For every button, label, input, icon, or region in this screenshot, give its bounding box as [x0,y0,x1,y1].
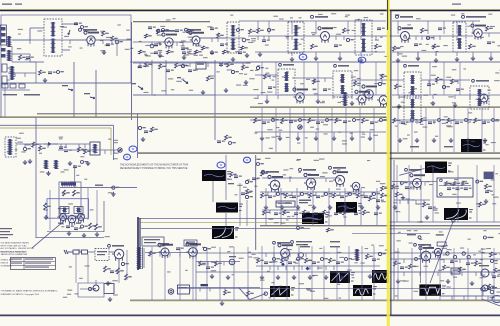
audio amp V18 [161,248,169,256]
labels afc extra [435,212,439,213]
mixer plate cap [210,27,214,29]
left edge verticals [0,83,2,118]
notes table [10,258,55,270]
ps lower [93,285,99,291]
blue mark video [243,157,250,163]
labels vert [348,274,351,275]
hv nodes [446,252,449,255]
v17 label [112,245,124,247]
ground T3 [291,57,293,59]
node mixer in [115,40,119,44]
antenna lower strip [2,64,7,72]
rail y229 [352,233,430,235]
ground after T2 [246,53,248,55]
ground V4 [315,56,317,58]
hv right column [490,252,493,257]
audio box labels [142,237,164,246]
3rd if transformer T5 [453,22,466,52]
tube V15b [352,182,360,190]
damper V24 [481,269,489,277]
takeoff wire 1 [73,62,75,118]
wire afc run [392,181,437,183]
ground T5 [456,57,458,59]
osc cap C8 [175,29,179,31]
audio parts2 [199,261,202,266]
scope photo E [212,226,234,239]
scope photo B [425,162,447,174]
afc label [409,169,421,171]
sync bottom labels [296,241,312,242]
labels video row [276,136,280,137]
node osc [150,44,154,48]
labels top band [248,42,253,43]
if takeoff coil T2 [227,22,239,53]
cap C17 [438,27,442,29]
3rd if transformer T6 [278,69,295,95]
afc right cluster [484,172,494,180]
sound coil box [90,142,100,155]
sound cluster [23,147,26,150]
mixer tube V3 [192,36,200,44]
mixer cathode parts [181,47,185,49]
wire sound run [16,143,90,145]
noise tube V15 [335,175,344,184]
svg-text:RESISTANCE READINGS: RESISTANCE READINGS [1,250,28,253]
V7 parts [313,79,316,84]
afc left parts [392,184,395,189]
rail y158 [388,157,500,159]
sync parts row [261,193,264,198]
takeoff wire 2 [95,70,97,118]
ground R11 [339,56,341,58]
sound diode [48,142,52,146]
rail y225 [260,224,500,226]
audio v-wire to photo I [239,288,250,300]
mid cd verticals [225,155,227,200]
rect box lv [95,249,109,261]
cluster e2 [219,63,223,65]
cluster c2 [175,63,178,68]
top border rule [0,9,500,11]
balun terminals [1,48,6,52]
res sound2 [39,146,42,151]
V5 cathode res [393,46,396,51]
quad coil pair [45,160,48,169]
svg-text:VOLTAGE READINGS TAKEN: VOLTAGE READINGS TAKEN [1,242,30,245]
node T4 [346,38,349,41]
wire run row2 right [250,94,386,96]
rf transformer T1 [44,19,62,56]
vert labels mid [300,246,310,247]
antenna terminal board [1,27,6,31]
labels vert extra [310,291,315,292]
scope photo A [461,139,482,152]
rail row2 top [250,61,386,63]
video amp V10 [480,94,488,102]
width box [451,268,460,274]
horiz parts [394,261,397,266]
focus coil bar [201,284,209,286]
phase diag line [32,221,64,248]
res after T2 [249,29,252,34]
vertical x420b [420,246,422,283]
V4 cathode res [311,44,314,49]
labels ps [106,283,111,284]
svg-text:RECEIVER MADE IT POSSIBLE TO B: RECEIVER MADE IT POSSIBLE TO BRING YOU T… [120,167,188,170]
4th if amp V8 [365,90,374,99]
rf amp tube V1 4BZ7 [87,36,95,44]
horiz label22 [418,244,431,246]
agc wire verticals [151,60,153,95]
scope photo I [270,286,290,297]
V4 plate cap [334,44,338,46]
agc keying box [276,201,295,207]
res R15 [433,44,436,49]
agc tube V14 [306,178,316,188]
res sound3 [78,147,81,152]
disc blue box [47,199,89,219]
vert parts row [257,258,260,263]
ps verticals [75,254,77,283]
2nd if amp V5 6CB6 [401,32,410,41]
fine tuning cap [148,26,152,28]
cluster near c [230,172,233,177]
labels phase det [105,236,110,237]
sync row verticals [265,188,267,225]
scope photo H [444,208,468,220]
3rd if amp V7 [296,93,305,102]
2nd if label [400,16,413,18]
wire c to d [212,181,214,202]
sound disc coil [9,139,12,155]
vert osc V21 [281,249,290,258]
bypass cap C4 [106,43,110,45]
hv diag [482,299,500,306]
mixer area parts [145,34,148,38]
labels mid cd [228,179,232,180]
labels top band extra [230,15,233,16]
video amp tube V11 [358,95,366,103]
afc mid cluster [423,202,426,207]
sync label13 [266,171,279,173]
V9 parts [395,84,398,89]
cathode resistor R4 [111,36,114,41]
bottom rail y300 [130,299,500,301]
wire run row2 left [133,62,250,64]
brightness labels [410,146,419,147]
vert small node [299,253,304,258]
phase det box [59,182,81,216]
rail y153 [137,153,500,155]
audio verticals [151,247,153,300]
osc tube V2 6AF4 [165,38,173,46]
rail y117 [0,117,386,119]
speaker [168,289,173,294]
cluster before 1st if [257,28,260,33]
4th if transformer T7 [333,71,352,97]
wire vert run [258,252,330,254]
svg-text:©HOWARD W. SAMS GRAPHIC SERVIC: ©HOWARD W. SAMS GRAPHIC SERVICES SCHEMAT… [1,290,58,293]
label T7 [338,65,349,67]
ground e2 [225,88,227,90]
mixer res [217,33,220,38]
audio labels [158,243,169,245]
ground osc [159,53,161,55]
vertical x36 [35,118,37,239]
labels video bottom [297,159,301,160]
phase dashed border [103,201,105,232]
wire T1 feed [30,27,44,29]
hv circle2 [482,285,488,291]
sound box top [0,124,114,126]
rf amp plate wire [70,39,87,41]
top band bottom parts [139,50,142,54]
1st if label [315,16,328,18]
wire stubs top band [255,51,385,53]
b+ vertical [74,165,76,188]
audio out V19 [189,248,198,257]
wire run osc row [133,41,192,43]
ground T4 [360,58,362,60]
vert label21 [277,242,290,244]
labels row2 right [300,83,304,84]
cluster a2 [138,65,142,67]
vert parts2 [366,254,369,259]
ground R15 [435,58,437,60]
labels bottom afc [407,230,411,231]
scope photo F [336,202,357,213]
antenna coil L1 [8,36,11,47]
yellow fold line [387,0,390,326]
blue mark if1 [299,54,307,60]
scope photo C [202,170,226,181]
tuner interior wires [11,46,13,62]
ps parts [104,266,107,272]
svg-text:SYMBOL KEY: SYMBOL KEY [1,260,14,262]
phase det wire 250v [60,187,113,189]
tuner enclosure [1,15,131,83]
fold shadow line [390,10,392,315]
sync tube V13 [270,180,280,190]
agc label14 [303,169,316,171]
blue mark if2 [358,57,366,63]
res R14 [421,28,424,33]
video out transformer T9 [470,86,489,109]
V8 parts [354,81,357,86]
det plate cap [487,41,491,43]
disc hatch boxes [60,207,69,214]
antenna stub row [2,84,8,88]
sound box top2 [0,127,111,129]
cluster agc1 [138,126,141,129]
phase grounds [68,231,70,233]
antenna coil L2 [8,50,11,61]
ground rf cathode [103,50,105,52]
ground V5 [397,58,399,60]
horiz parts2 [443,265,446,270]
audio dark verticals [137,217,139,270]
node after T2 [242,38,246,42]
horiz osc labels [407,234,416,235]
ps wires [88,251,95,253]
wire audio run [145,252,196,254]
right grounds y140 [399,138,401,140]
small rects bottom afc [437,242,446,246]
bottom border rule [0,314,500,316]
vert coil [356,249,359,261]
grounds sound [69,161,71,163]
wire bottom right [390,271,500,273]
wire run rf row [12,39,87,41]
ground C16 [417,56,419,58]
right video verticals [397,108,399,152]
det label [466,16,486,18]
rail y222 [388,221,500,223]
crt blue ellipse [492,296,500,303]
labels audio [227,251,230,252]
node 3rd if [426,36,429,39]
agc line [95,39,131,41]
vert section verticals [261,246,263,300]
afc tube V16 [413,179,422,188]
cluster mid cd [245,180,248,183]
scope photo L [372,270,389,283]
phase bottom parts [66,225,70,227]
vertical x255 [255,155,257,250]
cluster under g [297,227,300,230]
osc grid resistor [157,29,160,34]
blue mark sound [124,154,131,160]
rf amp label [83,29,97,31]
audio tube V20 [229,259,235,265]
noise label15 [333,167,346,169]
scope photo G [302,213,324,224]
scope photo M [419,284,441,295]
line cord [73,250,79,254]
mixer label [189,29,201,31]
arrow AF [138,86,143,89]
left wire y95 [133,94,250,96]
rail y113 [37,113,386,115]
labels row2 left [246,62,251,63]
page header marks [2,4,12,5]
phase tubes [60,214,67,221]
scope photo J [330,271,350,283]
audio res bottom [224,290,227,295]
integrator internals [440,179,443,182]
video amp parts row [254,118,257,123]
scope photo K [353,285,372,296]
wire antenna to balun [12,39,30,41]
phase top parts [81,161,84,164]
video amp grounds [261,136,263,138]
ground det [472,56,474,58]
horiz out V22 [421,251,431,261]
volume pot [118,148,122,152]
labels sync extra [286,219,289,220]
svg-text:TAKEN WITH OHMMETER: TAKEN WITH OHMMETER [1,253,28,256]
label T8 [408,65,419,67]
sync sep label [299,200,311,202]
svg-text:THE ACKNOWLEDGMENTS OF THE MAN: THE ACKNOWLEDGMENTS OF THE MANUFACTURER … [120,164,189,167]
labels sync row [281,194,285,195]
caps sound [59,146,63,148]
wire bottom phase [36,237,104,239]
wire run if row [248,35,320,37]
left margin text sync [0,228,12,229]
if bus wire [239,20,386,22]
cap C15 [377,27,381,29]
cluster g2 [256,66,259,69]
b+ rail row2 [250,107,386,109]
1st if transformer T3 [288,22,304,53]
V5 plate cap [414,43,418,45]
res R17 [486,26,489,31]
horiz out verticals [397,248,399,300]
trimmer C1 [68,30,70,35]
osc section wires [133,21,210,23]
1st if amp V4 6CB6 [321,32,330,41]
row2 verticals right [261,62,263,95]
svg-text:SCHEMATIC: SCHEMATIC [1,264,13,267]
arrow AGC [183,80,188,83]
cluster d2 [207,76,210,81]
cluster f2 [242,65,245,70]
sync row parts2 [263,210,266,215]
svg-text:USED IN: USED IN [1,263,9,265]
ground T2 [211,50,213,52]
wire video row [250,119,340,121]
node b+ phase [112,186,115,189]
sync grounds [265,205,267,207]
res before yellow [381,74,384,79]
phase verticals [49,190,51,230]
interlock [64,250,66,254]
res R12 [375,44,378,49]
osc label [161,30,175,32]
video det transformer T8 [404,72,421,98]
wire sync run [260,191,380,193]
svg-text:WITH VTVM LINE 117 V AC: WITH VTVM LINE 117 V AC [1,244,28,247]
label 3rd if [283,64,294,66]
svg-text:STANDARD NOTATION ©Copyright: STANDARD NOTATION ©Copyright 1954 [1,293,40,296]
peaking coil [344,92,347,106]
video det V9 [379,96,388,105]
vert grounds [261,275,263,277]
phase tube labels [58,223,63,224]
res R11 [343,28,346,33]
vertical x137 [137,114,139,159]
vertical x196 [195,247,197,300]
svg-text:ALL VOLTAGES + UNLESS NOTED: ALL VOLTAGES + UNLESS NOTED [1,247,35,250]
hv rect V23 [434,248,441,255]
cluster agc2 [225,135,228,140]
wire h to m [430,221,453,283]
audio rails [196,252,500,254]
wire mixer-T2 [200,37,227,39]
left res phase [44,203,47,210]
audio out transformer [138,247,141,269]
labels hv col [480,259,483,260]
audio nested box lines [139,217,318,219]
grid resistor R3 [102,31,105,36]
right parts row y120 [393,118,396,123]
wire phase right [113,187,137,189]
phase res pair [63,190,66,196]
blue diamond marks [306,267,310,271]
afc verticals [396,165,398,222]
rect tube V17 [114,249,124,259]
